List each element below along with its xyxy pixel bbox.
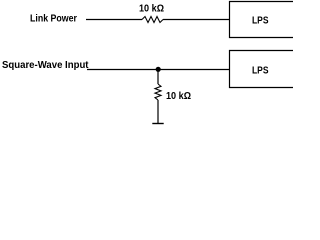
resistor R2 (10 kOhm, vertical) [155,84,161,100]
wire: Link Power to resistor R1 [86,19,142,21]
svg-text:10 kΩ: 10 kΩ [139,4,164,15]
wire: resistor R2 to ground [157,100,159,123]
resistor R1 (10 kOhm, horizontal) [142,17,163,23]
svg-text:10 kΩ: 10 kΩ [166,91,191,102]
wire: Square-Wave Input to junction [87,69,158,71]
block U1 "LPS" (box, clipped at right edge) [230,2,294,38]
wire: junction down to resistor R2 [157,70,159,85]
block U2 "LPS" (box, clipped at right edge) [230,51,294,88]
wire: resistor R1 to LPS box 1 [163,19,229,21]
svg-text:Square-Wave Input: Square-Wave Input [2,60,89,71]
svg-text:LPS: LPS [252,15,269,27]
svg-text:Link Power: Link Power [30,14,77,25]
ground [152,123,163,125]
wire: junction to LPS box 2 [158,69,229,71]
junction (node dot) [156,67,161,72]
svg-text:LPS: LPS [252,65,269,77]
